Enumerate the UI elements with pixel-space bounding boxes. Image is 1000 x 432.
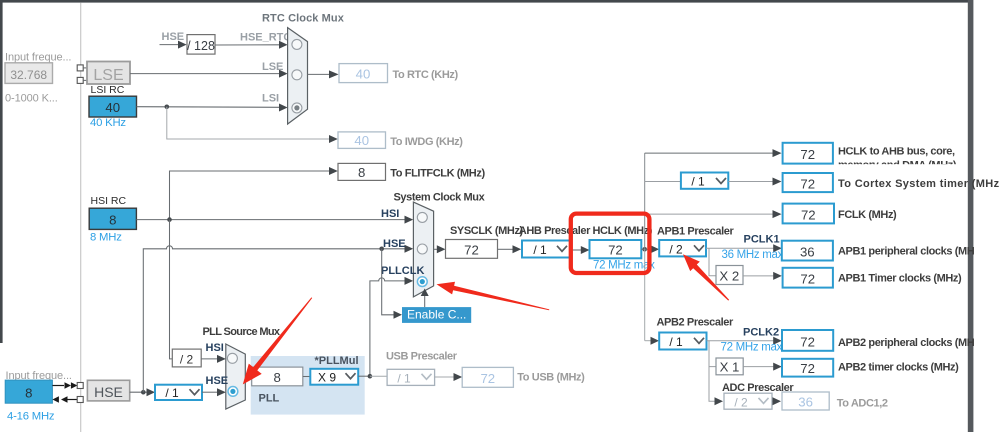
svg-text:72: 72 xyxy=(801,207,816,222)
title: System Clock Mux xyxy=(394,192,486,204)
svg-text:40: 40 xyxy=(105,100,120,115)
wire APB1 X2 branch xyxy=(709,248,716,276)
svg-text:PCLK1: PCLK1 xyxy=(744,233,780,245)
svg-text:72 MHz max: 72 MHz max xyxy=(593,260,655,272)
source box LSE xyxy=(87,62,130,85)
svg-text:72: 72 xyxy=(800,361,815,376)
wire APB2 X1 branch xyxy=(709,341,716,367)
svg-text:PLL Source Mux: PLL Source Mux xyxy=(203,326,281,338)
pin handle OSC32_OUT xyxy=(77,77,87,83)
label: 40 KHz xyxy=(90,117,126,129)
label: HSI RC xyxy=(91,195,127,207)
wire APB1 to PCLK1 box xyxy=(706,244,782,252)
svg-text:To FLITFCLK (MHz): To FLITFCLK (MHz) xyxy=(390,168,485,180)
svg-text:8: 8 xyxy=(274,370,281,385)
svg-text:32.768: 32.768 xyxy=(10,68,47,82)
wire Enable CSS up-arrow into mux xyxy=(421,289,429,308)
node label LSE (at mux) xyxy=(262,61,283,73)
label: Input frequency (top) xyxy=(5,52,71,64)
svg-text:LSI: LSI xyxy=(262,92,279,104)
svg-text:72: 72 xyxy=(464,242,479,257)
wire LSE to RTC mux xyxy=(130,70,288,78)
svg-text:X 9: X 9 xyxy=(318,371,336,385)
wire /1 to PLL mux HSE input xyxy=(202,388,226,396)
wire HCLK trunk vertical xyxy=(644,153,646,341)
svg-text:X 1: X 1 xyxy=(720,360,740,375)
wire X9 output to junction xyxy=(358,374,372,379)
node label PCLK1 xyxy=(744,233,780,245)
svg-text:SYSCLK (MHz): SYSCLK (MHz) xyxy=(450,225,524,237)
radio HSE PLL (selected) xyxy=(228,387,238,397)
label: FCLK (MHz) xyxy=(838,209,897,221)
box HCLK 72 xyxy=(590,240,642,258)
source box HSI RC 8 xyxy=(89,208,136,229)
PLL block background xyxy=(251,356,365,415)
label: APB1 Prescaler xyxy=(657,225,734,237)
pin handle OSC_OUT xyxy=(77,397,83,403)
multiplier box X2 xyxy=(716,266,743,285)
svg-text:APB1 Prescaler: APB1 Prescaler xyxy=(657,225,734,237)
label: LSI RC xyxy=(91,84,125,96)
svg-text:/ 1: / 1 xyxy=(165,386,179,400)
svg-text:LSI RC: LSI RC xyxy=(91,84,125,96)
wire HSE riser to System Clock Mux (with hop) xyxy=(143,245,413,392)
label: 36 MHz max xyxy=(722,249,784,261)
svg-text:4-16 MHz: 4-16 MHz xyxy=(7,410,55,422)
wire trunk to FCLK box xyxy=(645,210,782,218)
svg-text:HSI RC: HSI RC xyxy=(91,195,127,207)
label: To Cortex System timer (MHz) xyxy=(838,178,1000,190)
dropdown PLLMul X9 xyxy=(310,369,358,385)
label: ADC Prescaler xyxy=(722,382,794,394)
svg-text:72 MHz max: 72 MHz max xyxy=(721,342,783,354)
mux RTC Clock Mux body xyxy=(288,28,308,124)
box PLL input 8 xyxy=(252,367,303,386)
svg-text:40: 40 xyxy=(356,67,371,82)
svg-text:APB2 peripheral clocks (MH: APB2 peripheral clocks (MH xyxy=(838,337,975,349)
source box LSI RC 40 xyxy=(89,96,137,117)
svg-text:/ 1: / 1 xyxy=(397,371,411,385)
radio HSE_RTC (off) xyxy=(292,39,302,49)
svg-text:USB Prescaler: USB Prescaler xyxy=(386,350,458,362)
svg-text:/ 2: / 2 xyxy=(669,242,683,256)
label: APB2 Prescaler xyxy=(657,316,734,328)
source box HSE xyxy=(87,380,129,401)
svg-text:72: 72 xyxy=(480,371,495,386)
svg-text:8: 8 xyxy=(109,213,116,228)
svg-text:/ 1: / 1 xyxy=(691,175,705,189)
svg-text:36: 36 xyxy=(798,394,813,409)
label: HCLK (MHz) xyxy=(593,225,653,237)
wire trunk to APB2 prescaler xyxy=(645,337,659,345)
junction after HCLK xyxy=(642,247,647,252)
wire ADC to box xyxy=(772,397,781,405)
wire RTC mux to RTC box xyxy=(308,70,339,78)
svg-text:PCLK2: PCLK2 xyxy=(743,326,779,338)
wire HSI to FLITFCLK xyxy=(170,167,338,220)
svg-text:To ADC1,2: To ADC1,2 xyxy=(837,397,888,409)
wire X1 to APB2 timer box xyxy=(743,363,782,371)
wire OSC_OUT pin to input (double arrow back) xyxy=(52,396,77,403)
svg-text:APB1 Timer clocks (MHz): APB1 Timer clocks (MHz) xyxy=(838,273,962,285)
output box To USB 72 (disabled) xyxy=(462,367,513,387)
svg-text:Input freque...: Input freque... xyxy=(5,52,71,64)
wire APB2 to PCLK2 box xyxy=(707,337,782,345)
svg-text:HSI: HSI xyxy=(206,342,224,354)
output box APB1 peripheral 36 xyxy=(782,241,833,261)
svg-text:APB1 peripheral clocks (MH: APB1 peripheral clocks (MH xyxy=(838,245,975,257)
label: To FLITFCLK (MHz) xyxy=(390,168,485,180)
label: 72 MHz max (HCLK) xyxy=(593,260,655,272)
radio HSI (off) xyxy=(417,212,427,222)
svg-text:/ 1: / 1 xyxy=(669,335,683,349)
svg-text:To Cortex System timer (MHz: To Cortex System timer (MHz xyxy=(838,178,1000,190)
svg-text:HCLK (MHz): HCLK (MHz) xyxy=(593,225,653,237)
dropdown HSE PLL prescaler /1 xyxy=(155,385,202,401)
svg-text:72: 72 xyxy=(800,272,815,287)
dropdown ADC /2 (disabled) xyxy=(724,393,772,409)
wire HSE stub to /128 xyxy=(160,41,187,49)
svg-text:8 MHz: 8 MHz xyxy=(90,231,122,243)
box: 32.768 input xyxy=(5,63,53,84)
button Enable CSS xyxy=(402,307,471,323)
svg-text:PLL: PLL xyxy=(259,392,280,404)
output box APB1 timer 72 xyxy=(783,268,833,288)
wire AHB to HCLK box xyxy=(570,246,590,254)
node label HSE (at system mux) xyxy=(383,238,406,250)
node label PCLK2 xyxy=(743,326,779,338)
wire HCLK to APB1 prescaler xyxy=(641,245,659,253)
dropdown USB /1 (disabled) xyxy=(387,369,435,385)
node label HSI (at PLL mux) xyxy=(206,342,224,354)
mux PLL Source Mux body xyxy=(226,344,246,409)
svg-text:/ 2: / 2 xyxy=(734,395,748,409)
label: APB2 timer clocks (MHz) xyxy=(838,362,959,374)
svg-text:8: 8 xyxy=(25,386,32,401)
label: To IWDG (KHz) xyxy=(390,136,463,148)
node label HSI (at system mux) xyxy=(381,208,399,220)
output box Cortex timer 72 xyxy=(783,173,833,192)
svg-text:40: 40 xyxy=(354,133,369,148)
svg-text:FCLK (MHz): FCLK (MHz) xyxy=(838,209,897,221)
wire HSI branch to /2 divider xyxy=(170,220,173,359)
label: 4-16 MHz xyxy=(7,410,55,422)
title: PLL Source Mux xyxy=(203,326,281,338)
box SYSCLK 72 xyxy=(446,240,498,259)
pin handle OSC_IN xyxy=(77,383,83,389)
svg-text:36 MHz max: 36 MHz max xyxy=(722,249,784,261)
svg-text:40 KHz: 40 KHz xyxy=(90,117,126,129)
dropdown APB2 /1 xyxy=(659,333,706,350)
wire input to OSC_IN pin (double arrow) xyxy=(52,382,77,389)
node label HSE_RTC xyxy=(240,31,291,43)
node label HSE (at PLL mux) xyxy=(206,375,229,387)
svg-text:HSE: HSE xyxy=(94,384,123,400)
annotation red arrow to PLLCLK radio xyxy=(437,282,550,311)
dropdown AHB /1 xyxy=(522,241,570,258)
wire 8 box to X9 xyxy=(303,376,311,378)
output box To IWDG 40 xyxy=(338,132,386,149)
svg-text:To USB (MHz): To USB (MHz) xyxy=(517,372,585,384)
wire HSI to System Clock Mux xyxy=(136,216,413,224)
svg-text:8: 8 xyxy=(358,165,365,180)
wire trunk to AHB bus box xyxy=(645,149,782,157)
svg-text:*PLLMul: *PLLMul xyxy=(315,355,359,367)
radio HSI PLL (off) xyxy=(227,353,237,363)
label: *PLLMul xyxy=(315,355,359,367)
svg-text:LSE: LSE xyxy=(262,61,283,73)
svg-text:HSE: HSE xyxy=(383,238,406,250)
wire LSI to RTC mux xyxy=(137,104,288,112)
wire HSE to PLL prescaler /1 xyxy=(130,388,155,396)
output box To ADC 36 (disabled) xyxy=(782,392,829,410)
svg-text:X 2: X 2 xyxy=(719,269,739,284)
svg-text:APB2 timer clocks (MHz): APB2 timer clocks (MHz) xyxy=(838,362,959,374)
label: PLL xyxy=(259,392,280,404)
svg-text:AHB Prescaler: AHB Prescaler xyxy=(519,225,591,237)
output box HCLK to AHB 72 xyxy=(783,143,833,164)
wire PLLCLK riser to System Clock Mux (with hop) xyxy=(370,277,413,376)
wire LSI branch to IWDG xyxy=(167,107,338,143)
output box APB2 timer 72 xyxy=(782,359,833,377)
label: 0-1000 KHz range xyxy=(5,93,58,105)
pin handle OSC32_IN xyxy=(77,65,87,71)
radio HSE (off) xyxy=(417,244,427,254)
multiplier box X1 xyxy=(716,358,743,375)
wire trunk to Cortex prescaler xyxy=(645,181,681,183)
source box HSE input 8 xyxy=(5,380,52,403)
svg-text:To IWDG (KHz): To IWDG (KHz) xyxy=(390,136,463,148)
annotation red rectangle around HCLK xyxy=(571,214,650,273)
svg-text:HSI: HSI xyxy=(381,208,399,220)
title: RTC Clock Mux xyxy=(262,12,345,24)
label: 72 MHz max (PCLK2) xyxy=(721,342,783,354)
node label PLLCLK xyxy=(381,265,424,277)
wire mux to SYSCLK box xyxy=(434,245,446,253)
svg-text:System Clock Mux: System Clock Mux xyxy=(394,192,486,204)
svg-text:HSE_RTC: HSE_RTC xyxy=(240,31,291,43)
dropdown APB1 /2 xyxy=(659,240,706,256)
svg-text:RTC Clock Mux: RTC Clock Mux xyxy=(262,12,345,24)
label: AHB Prescaler xyxy=(519,225,591,237)
label: APB1 peripheral clocks xyxy=(838,245,975,257)
frame left border xyxy=(0,0,3,343)
right panel bar xyxy=(968,0,974,432)
label: USB Prescaler xyxy=(386,350,458,362)
wire ADC branch xyxy=(709,367,723,406)
radio LSE (off) xyxy=(292,70,302,80)
wire SYSCLK to AHB prescaler xyxy=(498,245,522,253)
wire Cortex prescaler to box xyxy=(728,178,781,186)
svg-text:PLLCLK: PLLCLK xyxy=(381,265,424,277)
svg-text:HSE: HSE xyxy=(162,31,185,43)
svg-text:/ 1: / 1 xyxy=(533,243,547,257)
wire USB prescaler to USB box xyxy=(435,373,463,381)
svg-text:72: 72 xyxy=(800,176,815,191)
node label LSI (at mux) xyxy=(262,92,279,104)
label: Input frequency (bottom) xyxy=(6,370,72,382)
divider box /128 xyxy=(187,35,215,55)
label: To USB (MHz) xyxy=(517,372,585,384)
wire Enable CSS feed from HSE line xyxy=(382,249,402,319)
label: HCLK to AHB bus, core, memory and DMA (MHz) clipped xyxy=(836,140,967,172)
svg-text:/ 128: / 128 xyxy=(187,39,215,53)
output box FCLK 72 xyxy=(783,204,834,224)
dropdown Cortex /1 xyxy=(681,173,728,189)
label: 8 MHz xyxy=(90,231,122,243)
output box APB2 peripheral 72 xyxy=(782,330,833,351)
mux System Clock Mux body xyxy=(413,202,433,297)
radio PLLCLK (selected) xyxy=(417,277,427,287)
annotation red arrow to APB1 prescaler xyxy=(683,254,729,300)
wire /128 to RTC mux xyxy=(215,41,288,49)
label: To ADC1,2 xyxy=(837,397,888,409)
svg-text:HSE: HSE xyxy=(206,375,229,387)
svg-text:36: 36 xyxy=(800,244,815,259)
svg-text:72: 72 xyxy=(800,147,815,162)
svg-text:72: 72 xyxy=(608,243,623,258)
wire X2 to APB1 timer box xyxy=(743,272,782,280)
annotation red arrow to PLL source mux xyxy=(243,297,312,384)
svg-text:To RTC (KHz): To RTC (KHz) xyxy=(393,69,459,81)
output box To FLITFCLK 8 xyxy=(338,163,386,180)
left pin rail xyxy=(80,3,82,432)
label: To RTC (KHz) xyxy=(393,69,459,81)
divider box /2 (PLL HSI) xyxy=(172,349,201,367)
svg-text:72: 72 xyxy=(800,334,815,349)
output box To RTC 40 xyxy=(339,64,388,83)
frame top border xyxy=(0,0,972,3)
wire /2 to PLL mux HSI input xyxy=(201,355,226,363)
label: APB2 peripheral clocks xyxy=(838,337,975,349)
svg-text:/ 2: / 2 xyxy=(180,352,194,366)
svg-text:0-1000 K...: 0-1000 K... xyxy=(5,93,58,105)
svg-text:APB2 Prescaler: APB2 Prescaler xyxy=(657,316,734,328)
radio LSI (selected) xyxy=(292,103,302,113)
label: APB1 Timer clocks (MHz) xyxy=(838,273,962,285)
label: SYSCLK (MHz) xyxy=(450,225,524,237)
svg-text:LSE: LSE xyxy=(93,67,123,84)
svg-text:Enable C...: Enable C... xyxy=(407,308,466,322)
wire junction to USB prescaler xyxy=(370,375,387,377)
node label HSE (to /128) xyxy=(162,31,185,43)
